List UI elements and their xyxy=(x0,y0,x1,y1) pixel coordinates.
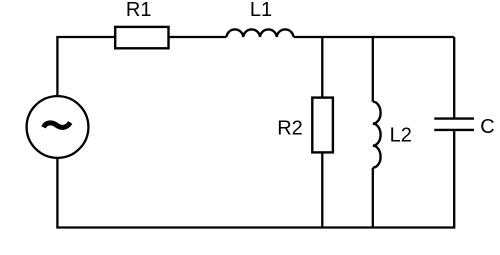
wire R2 branch upper xyxy=(321,37,323,98)
inductor L1 xyxy=(227,29,294,37)
wire C branch upper xyxy=(453,37,455,117)
svg-text:R1: R1 xyxy=(126,0,152,21)
wire L2 branch upper xyxy=(372,37,374,102)
wire R1 to L1 xyxy=(169,36,227,38)
wire top-left segment xyxy=(57,37,115,96)
wire left-bottom segment xyxy=(56,158,58,228)
resistor R2 xyxy=(312,98,333,153)
ac source V1 xyxy=(27,96,89,158)
capacitor C xyxy=(434,119,474,130)
wire L2 branch lower xyxy=(372,168,374,228)
svg-text:L1: L1 xyxy=(250,0,272,21)
inductor L2 xyxy=(373,102,381,168)
svg-text:L2: L2 xyxy=(390,125,412,147)
svg-text:C: C xyxy=(480,116,494,138)
wire bottom xyxy=(56,226,455,228)
resistor R1 xyxy=(115,27,168,48)
wire C branch lower xyxy=(453,131,455,227)
wire R2 branch lower xyxy=(321,152,323,227)
wire L1 to top-right corner xyxy=(294,36,455,38)
svg-text:R2: R2 xyxy=(277,117,303,139)
